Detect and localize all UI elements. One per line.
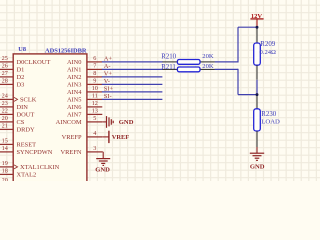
- svg-text:9: 9: [93, 78, 96, 85]
- svg-text:20: 20: [2, 115, 8, 122]
- svg-text:AIN4: AIN4: [67, 89, 82, 96]
- svg-text:ADS1256IDBR: ADS1256IDBR: [45, 48, 87, 55]
- svg-text:12V: 12V: [251, 13, 263, 20]
- svg-text:13: 13: [92, 108, 98, 115]
- svg-text:AIN1: AIN1: [67, 67, 82, 74]
- svg-text:D0CLKOUT: D0CLKOUT: [17, 59, 51, 66]
- svg-text:U8: U8: [18, 46, 26, 53]
- svg-text:28: 28: [2, 78, 8, 85]
- svg-text:11: 11: [92, 93, 98, 100]
- svg-text:VREFN: VREFN: [61, 149, 82, 156]
- svg-text:CS: CS: [17, 119, 25, 126]
- svg-text:0.24Ω: 0.24Ω: [260, 49, 277, 56]
- svg-text:20K: 20K: [202, 63, 214, 70]
- svg-text:20: 20: [2, 177, 8, 181]
- svg-text:18: 18: [2, 168, 8, 175]
- svg-text:4: 4: [93, 130, 96, 137]
- svg-text:AIN0: AIN0: [67, 59, 82, 66]
- svg-text:SYNCPDWN: SYNCPDWN: [17, 149, 53, 156]
- svg-text:10: 10: [92, 85, 98, 92]
- svg-text:14: 14: [2, 145, 8, 152]
- svg-text:DRDY: DRDY: [17, 127, 35, 134]
- svg-text:D1: D1: [17, 67, 25, 74]
- svg-text:19: 19: [2, 160, 8, 167]
- svg-text:AIN6: AIN6: [67, 104, 82, 111]
- svg-text:GND: GND: [95, 167, 110, 174]
- svg-text:VREFP: VREFP: [62, 134, 82, 141]
- svg-text:DIN: DIN: [17, 104, 29, 111]
- svg-text:AIN5: AIN5: [67, 97, 82, 104]
- svg-text:21: 21: [2, 123, 8, 130]
- svg-text:5: 5: [93, 115, 96, 122]
- svg-text:R211: R211: [161, 64, 176, 71]
- svg-text:D2: D2: [17, 74, 25, 81]
- svg-text:DOUT: DOUT: [17, 112, 35, 119]
- svg-text:7: 7: [93, 63, 96, 70]
- svg-text:23: 23: [2, 100, 8, 107]
- svg-text:AIN7: AIN7: [67, 112, 82, 119]
- svg-text:GND: GND: [119, 119, 134, 126]
- svg-text:12: 12: [92, 100, 98, 107]
- svg-text:AIN2: AIN2: [67, 74, 82, 81]
- svg-text:25: 25: [2, 55, 8, 62]
- svg-text:15: 15: [2, 138, 8, 145]
- svg-text:26: 26: [2, 63, 8, 70]
- svg-text:20K: 20K: [202, 53, 214, 60]
- svg-text:22: 22: [2, 108, 8, 115]
- svg-text:3: 3: [93, 145, 96, 152]
- svg-text:R209: R209: [260, 41, 275, 48]
- svg-text:8: 8: [93, 70, 96, 77]
- svg-text:6: 6: [93, 55, 96, 62]
- svg-text:AIN3: AIN3: [67, 82, 82, 89]
- svg-text:R230: R230: [261, 111, 276, 118]
- svg-text:LOAD: LOAD: [261, 118, 280, 125]
- svg-text:GND: GND: [250, 164, 265, 171]
- svg-text:24: 24: [2, 93, 8, 100]
- svg-text:AINCOM: AINCOM: [56, 119, 82, 126]
- svg-text:XTAL1CLKIN: XTAL1CLKIN: [20, 164, 60, 171]
- svg-text:SCLK: SCLK: [20, 97, 37, 104]
- svg-text:VREF: VREF: [112, 134, 129, 141]
- svg-text:XTAL2: XTAL2: [17, 172, 37, 179]
- svg-text:RESET: RESET: [17, 142, 37, 149]
- svg-text:D3: D3: [17, 82, 25, 89]
- svg-text:27: 27: [2, 70, 8, 77]
- svg-text:R210: R210: [161, 53, 176, 60]
